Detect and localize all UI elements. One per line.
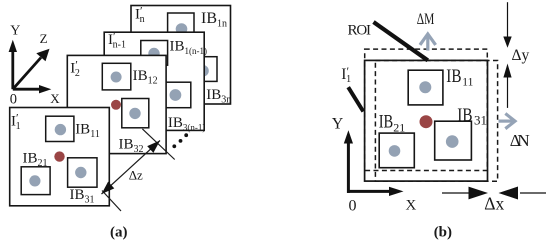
- svg-text:Y: Y: [10, 24, 20, 39]
- svg-text:X: X: [50, 91, 60, 106]
- svg-text:0: 0: [10, 92, 17, 108]
- svg-text:(b): (b): [434, 225, 452, 241]
- svg-text:ΔM: ΔM: [417, 11, 435, 28]
- svg-text:ΔN: ΔN: [510, 131, 530, 150]
- svg-text:0: 0: [349, 198, 357, 215]
- svg-text:Z: Z: [40, 31, 48, 46]
- svg-text:ROI: ROI: [348, 23, 372, 39]
- svg-text:Δz: Δz: [129, 168, 143, 183]
- svg-text:Y: Y: [332, 115, 344, 132]
- svg-text:X: X: [406, 198, 417, 214]
- svg-text:(a): (a): [110, 225, 128, 241]
- svg-text:Δx: Δx: [484, 193, 504, 213]
- svg-text:Δy: Δy: [512, 47, 530, 64]
